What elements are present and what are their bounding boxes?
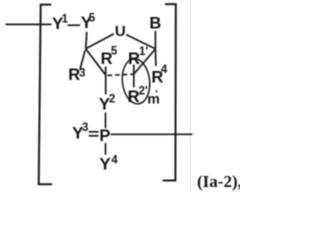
- svg-text:1: 1: [62, 13, 69, 25]
- bond C4' to U: [86, 34, 114, 49]
- bond C1' to R4: [154, 49, 157, 66]
- svg-text:2: 2: [109, 93, 115, 105]
- right bracket: [163, 4, 176, 180]
- left lead bond: [6, 23, 52, 25]
- bond C1' to C2': [134, 49, 155, 74]
- bond P to right side: [111, 133, 193, 135]
- svg-text:3: 3: [82, 122, 88, 134]
- svg-text:1': 1': [139, 46, 148, 58]
- left bracket: [39, 5, 52, 185]
- bond C4' to R3: [80, 50, 85, 69]
- bond C4' to C3': [86, 49, 106, 75]
- bond B to C1': [154, 31, 156, 49]
- svg-text:5: 5: [111, 46, 118, 58]
- bond P to Y4: [105, 143, 107, 155]
- dashed bond C3' to C2': [108, 74, 134, 75]
- svg-text:5: 5: [89, 12, 96, 24]
- dash between Y1 and Y5: [68, 24, 81, 26]
- svg-text:(Ia-2),: (Ia-2),: [197, 172, 240, 191]
- bond R5-C3'-Y2 vertical: [105, 66, 107, 94]
- svg-text:B: B: [149, 15, 161, 33]
- svg-text:P: P: [99, 127, 110, 145]
- svg-text:': ': [155, 89, 157, 100]
- svg-text:m: m: [147, 90, 159, 106]
- bond Y5 to C4': [86, 32, 87, 49]
- ellipse around R2': [120, 57, 152, 105]
- bond R1'-C2'-R2' vertical: [133, 65, 135, 88]
- double bond Y3 = P: [89, 131, 99, 133]
- bond U to C1': [126, 35, 155, 49]
- svg-text:4: 4: [161, 64, 168, 76]
- svg-text:U: U: [115, 23, 126, 40]
- svg-text:4: 4: [111, 154, 118, 166]
- svg-text:Y: Y: [99, 155, 111, 174]
- bond Y2 to P: [105, 112, 107, 128]
- svg-text:3: 3: [79, 67, 85, 79]
- scan artifact faint vertical line: [189, 0, 191, 192]
